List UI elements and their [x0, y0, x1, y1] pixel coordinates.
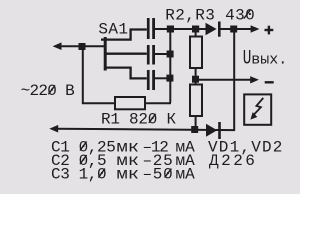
- lightning bolt arrow: [250, 98, 263, 120]
- svg-text:мА: мА: [176, 166, 196, 184]
- terminal arrow ~220V line 1: [53, 42, 79, 50]
- node R2 R3 junction: [192, 76, 199, 83]
- terminal arrow ~220V line 2 (bottom rail): [49, 125, 235, 133]
- capacitor C1: [147, 18, 155, 39]
- node R2 top: [192, 26, 199, 33]
- label minus sign: [265, 81, 274, 83]
- wire node A to SA1: [85, 45, 104, 47]
- diode VD2: [206, 122, 221, 139]
- node plus branch: [230, 26, 237, 33]
- wire SA1 throw 1 to C1: [101, 30, 147, 40]
- minus output arrowhead: [250, 76, 259, 83]
- svg-text:–50: –50: [143, 166, 174, 184]
- resistor R1 right lead: [145, 102, 171, 104]
- label U output: [243, 47, 288, 70]
- capacitor C3: [147, 70, 155, 90]
- wire SA1 throw 3 to C3: [105, 68, 147, 79]
- label C2 line: [51, 152, 195, 170]
- label R2,R3 430: [165, 7, 255, 25]
- wire C2 right lead: [155, 53, 168, 55]
- surge box (load symbol): [244, 94, 271, 124]
- resistor R1 left lead: [82, 102, 115, 104]
- node A (input junction): [79, 43, 86, 50]
- wire minus rail: [199, 79, 252, 81]
- node R3 bottom: [191, 126, 198, 133]
- svg-text:R2,R3 430: R2,R3 430: [165, 7, 255, 25]
- wire top rail: [155, 28, 206, 30]
- svg-text:SA1: SA1: [98, 20, 128, 38]
- svg-text:вых.: вых.: [251, 52, 287, 69]
- svg-text:U: U: [243, 47, 252, 70]
- wire left vertical (node A down to R1): [82, 49, 84, 104]
- label C1 line: [51, 139, 195, 157]
- svg-text:~220 В: ~220 В: [21, 82, 75, 100]
- resistor R2: [190, 37, 202, 69]
- svg-text:C3 1,0: C3 1,0: [51, 166, 106, 184]
- label ~220 V: [21, 82, 75, 100]
- switch SA1 bar: [104, 37, 107, 71]
- resistor R2 leads: [195, 31, 197, 37]
- label plus sign: [265, 26, 274, 35]
- svg-text:R1 820 К: R1 820 К: [101, 111, 176, 129]
- svg-text:Д226: Д226: [209, 152, 257, 170]
- node C3 bus: [166, 75, 173, 82]
- wire SA1 throw 2 to C2: [105, 53, 147, 55]
- resistor R3 bottom lead: [195, 116, 197, 129]
- label R1 820 K: [101, 111, 176, 129]
- capacitor C2: [147, 45, 155, 65]
- node bus top: [167, 26, 174, 33]
- resistor R3: [190, 85, 202, 117]
- svg-text:мк: мк: [117, 166, 140, 184]
- wire C3 right lead: [155, 77, 168, 79]
- wire plus node down to VD2: [233, 31, 235, 131]
- wire VD1 to plus arrow: [221, 28, 252, 30]
- diode VD1: [206, 22, 221, 37]
- plus output arrowhead: [251, 25, 260, 32]
- wire capacitor bus vertical: [169, 29, 171, 103]
- resistor R3 top lead: [195, 82, 197, 85]
- resistor R2 bottom lead: [195, 68, 197, 78]
- resistor R1: [115, 97, 145, 109]
- label C3 line: [51, 166, 195, 184]
- node C2 bus: [167, 51, 174, 58]
